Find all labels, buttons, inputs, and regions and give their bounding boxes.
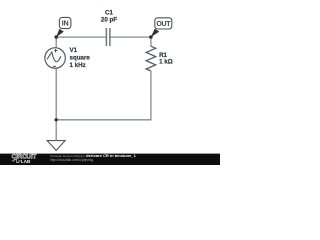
capacitor C1 plates [105,28,107,46]
svg-text:1 kΩ: 1 kΩ [159,59,173,66]
CircuitLab logo waveform [12,159,21,162]
bottom-left junction dot [55,118,58,121]
V1 minus sign [53,65,56,67]
wire: right vertical from R1 bottom to bottom wire [150,71,152,120]
wire: left vertical from node IN to V1 top [55,37,57,48]
V1 waveform squiggle [47,52,61,62]
node IN junction dot [54,35,58,39]
watermark bar [0,154,220,165]
flag OUT box [155,18,172,29]
voltage source V1 circle [45,48,66,69]
wire: top right horizontal from C1 right plate to node OUT [110,36,150,38]
V1 plus sign [54,49,57,52]
svg-text:LAB: LAB [21,159,31,164]
svg-text:OUT: OUT [156,21,171,28]
flag IN box [59,17,71,28]
flag pointer wedge for IN [56,29,64,38]
svg-text:20 pF: 20 pF [101,17,117,24]
wire: left vertical from V1 bottom to bottom-left junction [55,68,57,120]
svg-text:IN: IN [62,19,69,28]
ground symbol [47,141,65,151]
svg-text:V1: V1 [70,47,78,54]
node OUT junction dot [149,35,153,39]
svg-text:C1: C1 [105,9,113,16]
wire: left vertical from bottom-left junction to ground [55,120,57,141]
resistor R1 zigzag [146,46,156,71]
svg-text:square: square [70,55,91,62]
wire: bottom horizontal [56,119,151,121]
flag pointer wedge for OUT [151,29,160,38]
svg-text:http://circuitlab.com/c/pejsnk: http://circuitlab.com/c/pejsnkg [50,158,93,162]
wire: right vertical from node OUT to R1 top [150,37,152,46]
wire: top left horizontal from node IN to C1 left plate [56,36,106,38]
svg-text:1 kHz: 1 kHz [70,62,86,69]
